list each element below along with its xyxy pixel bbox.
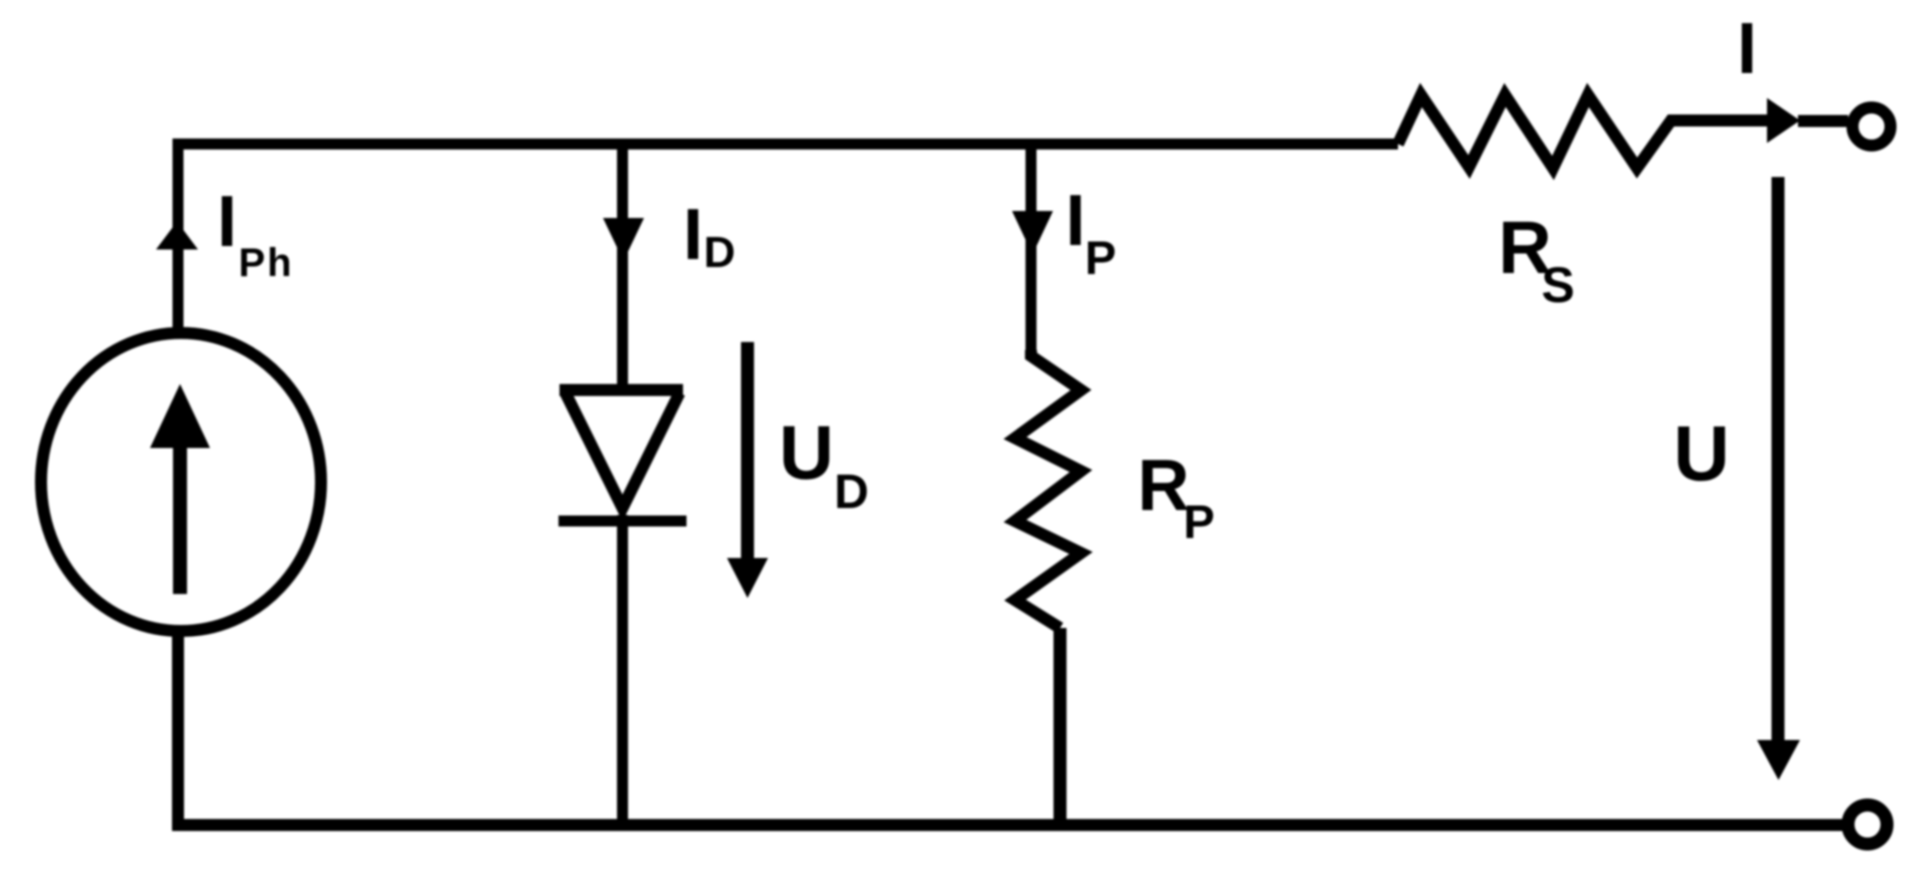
svg-text:R: R [1138, 446, 1190, 526]
svg-text:Ph: Ph [238, 241, 293, 285]
svg-text:D: D [834, 466, 869, 519]
resistor R_S [1398, 95, 1768, 168]
svg-text:D: D [704, 228, 736, 277]
svg-text:I: I [1737, 9, 1757, 89]
svg-text:I: I [683, 195, 703, 275]
svg-text:P: P [1183, 495, 1214, 548]
svg-text:P: P [1085, 231, 1116, 284]
voltage arrow U_D [741, 342, 754, 560]
current source arrow [173, 448, 187, 594]
wire to output with current arrow I [1767, 98, 1800, 143]
svg-text:I: I [1065, 181, 1085, 261]
resistor R_P [1015, 350, 1081, 628]
diode D1 [560, 384, 684, 396]
wire left lower [178, 632, 1844, 825]
wire R_P branch top [1026, 144, 1037, 356]
wire R_P branch bottom [1054, 628, 1067, 825]
terminal top right [1853, 108, 1891, 146]
wire diode branch bottom [617, 515, 628, 825]
svg-text:S: S [1541, 257, 1574, 313]
wire top bus [178, 144, 1398, 332]
I_P current arrow [1012, 211, 1053, 255]
wire diode branch top [617, 144, 628, 390]
svg-text:U: U [1673, 409, 1729, 497]
I_Ph current arrow [156, 222, 198, 250]
terminal bottom right [1848, 805, 1887, 844]
current source I_Ph circle [41, 333, 321, 631]
svg-text:I: I [217, 182, 237, 262]
svg-text:U: U [779, 411, 834, 496]
voltage arrow U [1772, 177, 1785, 742]
I_D current arrow [603, 218, 644, 261]
